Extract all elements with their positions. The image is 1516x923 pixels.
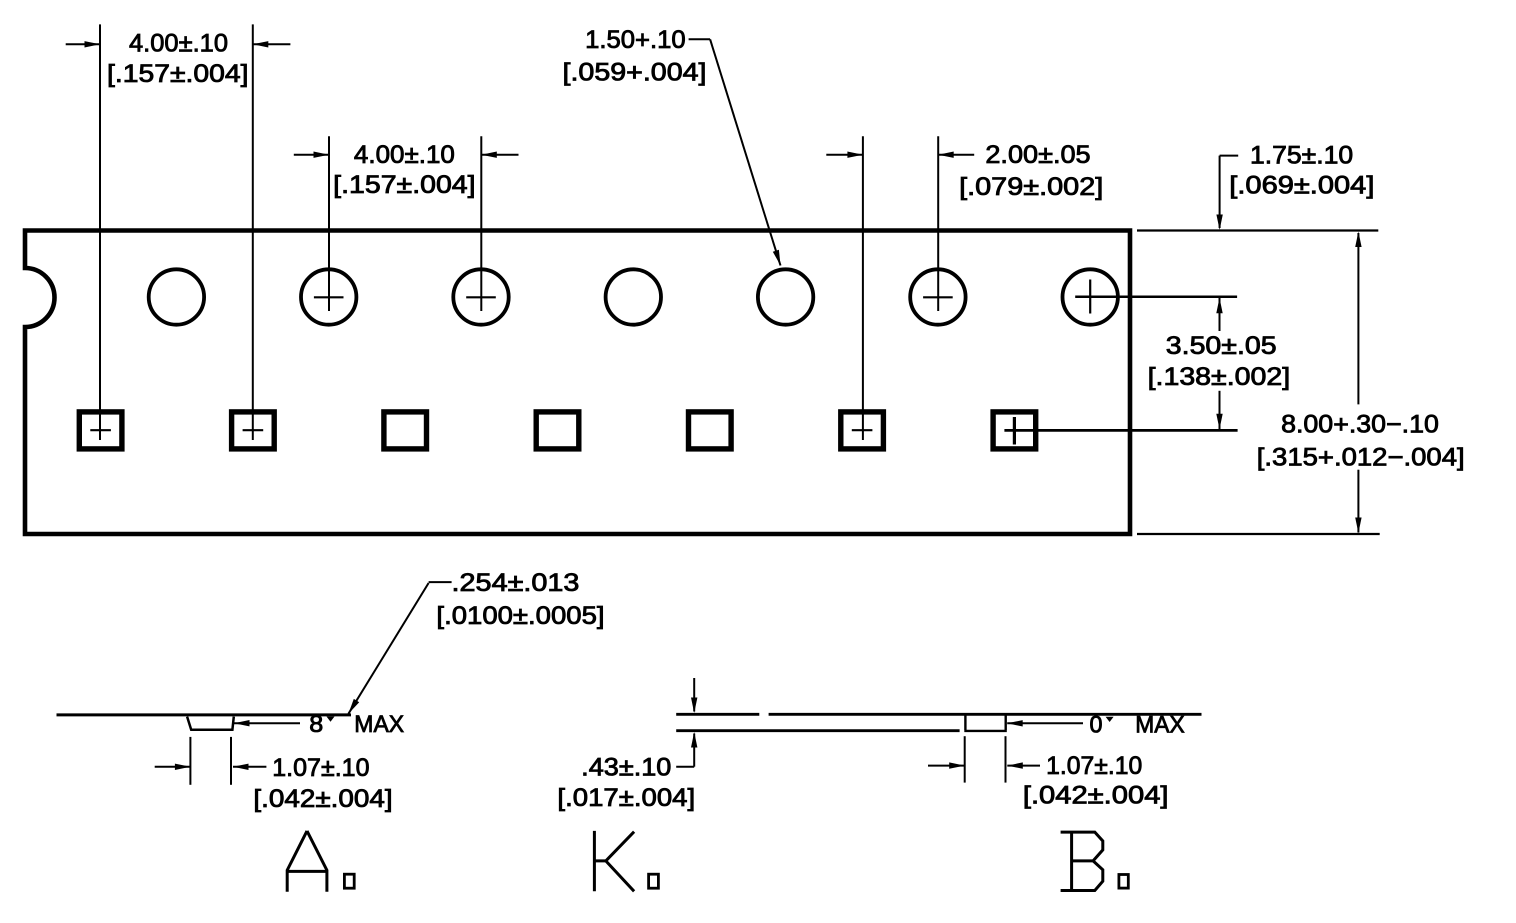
sprocket hole 7 — [1063, 269, 1118, 324]
svg-text:[.138±.002]: [.138±.002] — [1148, 363, 1291, 391]
dim 1.75 bent leader — [1220, 155, 1239, 157]
pocket 7 center reference line — [1004, 429, 1237, 432]
svg-text:8.00+.30−.10: 8.00+.30−.10 — [1281, 410, 1439, 438]
svg-text:[.059+.004]: [.059+.004] — [563, 58, 707, 86]
section A tape surface line — [57, 713, 352, 716]
component pocket 7 — [993, 412, 1036, 449]
svg-text:[.042±.004]: [.042±.004] — [253, 785, 392, 813]
section B pocket width left arrow — [928, 765, 965, 767]
component pocket 3 — [384, 412, 427, 449]
sprocket hole 6 — [910, 269, 965, 324]
dim 4.00 sprocket-pitch left extension line — [328, 136, 330, 311]
sprocket hole 7 center mark vertical — [1089, 280, 1091, 314]
dim .254 leader — [429, 581, 452, 583]
section B pocket width left extension line — [964, 736, 966, 782]
pocket 1 center mark — [90, 429, 111, 431]
section A draft angle arrow — [234, 722, 300, 724]
svg-text:.43±.10: .43±.10 — [581, 753, 671, 781]
section A pocket width right arrow — [233, 766, 266, 768]
svg-text:[.079±.002]: [.079±.002] — [959, 173, 1103, 201]
section A pocket width left arrow — [155, 766, 191, 768]
dim 2.00 left extension line — [862, 136, 864, 440]
pocket 7 center mark vertical — [1013, 417, 1016, 445]
section B pocket profile — [964, 716, 1007, 731]
section label K — [594, 831, 634, 891]
sprocket hole 2 center mark — [314, 296, 344, 298]
pocket 6 center mark — [852, 429, 873, 431]
section label A — [287, 831, 327, 892]
svg-text:1.07±.10: 1.07±.10 — [1046, 752, 1142, 780]
dim 1.50 leader — [689, 38, 711, 40]
top edge extension line — [1137, 229, 1378, 231]
svg-text:[.157±.004]: [.157±.004] — [333, 171, 475, 199]
component pocket 4 — [536, 412, 579, 449]
svg-text:[.042±.004]: [.042±.004] — [1023, 782, 1169, 810]
section A pocket profile — [187, 717, 234, 730]
section label B — [1061, 832, 1103, 890]
section A pocket width right extension line — [230, 737, 232, 785]
section label A period — [344, 874, 354, 888]
svg-text:[.0100±.0005]: [.0100±.0005] — [436, 602, 604, 630]
dim 2.00 left arrow — [826, 154, 863, 156]
svg-text:8: 8 — [309, 711, 323, 738]
svg-text:MAX: MAX — [1135, 712, 1184, 739]
sprocket hole 3 center mark — [466, 296, 496, 298]
pocket 2 center mark — [243, 429, 264, 431]
section B degree mark — [1106, 717, 1114, 722]
dim 3.50 top arrow — [1219, 298, 1221, 331]
section K bottom surface line — [676, 729, 959, 732]
dim 3.50 bottom arrow — [1219, 391, 1221, 429]
dim 2.00 right arrow — [938, 154, 974, 156]
dim 4.00 pocket-pitch right extension line — [252, 24, 254, 440]
section label B period — [1119, 875, 1128, 889]
sprocket hole 3 — [453, 269, 508, 324]
svg-text:1.75±.10: 1.75±.10 — [1250, 141, 1353, 169]
svg-text:0: 0 — [1090, 711, 1103, 738]
section K thickness bottom leader — [693, 734, 695, 767]
section K top surface line — [676, 713, 759, 716]
hole 7 center reference line — [1075, 295, 1237, 298]
dim 4.00 sprocket-pitch right extension line — [480, 136, 482, 311]
sprocket hole 5 — [758, 269, 813, 324]
section A degree mark — [327, 717, 335, 722]
dim 4.00 sprocket-pitch left arrow — [294, 154, 329, 156]
svg-text:[.157±.004]: [.157±.004] — [107, 60, 249, 88]
svg-text:[.017±.004]: [.017±.004] — [557, 784, 695, 812]
svg-text:1.50+.10: 1.50+.10 — [585, 26, 686, 54]
svg-text:[.069±.004]: [.069±.004] — [1229, 171, 1374, 199]
svg-text:4.00±.10: 4.00±.10 — [129, 29, 228, 57]
component pocket 5 — [689, 412, 732, 449]
bottom edge extension line — [1137, 533, 1380, 535]
section K thickness top arrow — [693, 678, 695, 712]
svg-text:MAX: MAX — [354, 711, 404, 738]
section B pocket width right extension line — [1005, 736, 1007, 782]
sprocket hole 2 — [301, 269, 356, 324]
section B wall angle arrow — [1007, 722, 1083, 724]
component pocket 6 — [841, 412, 884, 449]
section label K period — [649, 874, 659, 888]
dim 4.00 pocket-pitch left arrow — [66, 43, 100, 45]
dim 4.00 pocket-pitch right arrow — [253, 43, 291, 45]
svg-text:1.07±.10: 1.07±.10 — [272, 754, 369, 782]
svg-text:[.315+.012−.004]: [.315+.012−.004] — [1257, 443, 1465, 471]
svg-text:.254±.013: .254±.013 — [452, 569, 580, 597]
dim 4.00 sprocket-pitch right arrow — [481, 154, 518, 156]
carrier tape outline with edge notch — [25, 231, 1130, 535]
section B pocket width right arrow — [1007, 765, 1040, 767]
sprocket hole 4 — [606, 269, 661, 324]
svg-text:2.00±.05: 2.00±.05 — [985, 141, 1090, 169]
component pocket 2 — [232, 412, 275, 449]
sprocket hole 6 center mark — [923, 296, 953, 298]
dim 8.00 dimension line — [1357, 233, 1359, 404]
section A pocket width left extension line — [189, 737, 191, 785]
svg-text:4.00±.10: 4.00±.10 — [354, 141, 455, 169]
component pocket 1 — [79, 412, 122, 449]
sprocket hole 1 — [149, 269, 204, 324]
dim 4.00 pocket-pitch left extension line — [99, 24, 101, 440]
dim 2.00 right extension line — [937, 136, 939, 311]
svg-text:3.50±.05: 3.50±.05 — [1166, 332, 1277, 360]
